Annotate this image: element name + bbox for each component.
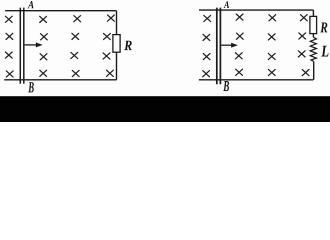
- velocity arrow (right diagram): [221, 43, 237, 47]
- field crosses left diagram: [5, 15, 114, 77]
- wire right branch below R: [116, 52, 118, 80]
- wire top rail (left diagram): [5, 10, 116, 12]
- inductor L value label: [321, 46, 328, 57]
- wire right branch above R: [312, 10, 314, 16]
- bottom black band: [0, 96, 330, 122]
- wire bottom rail (left diagram): [4, 79, 116, 81]
- node A label (right): [224, 1, 229, 8]
- wire top rail (right diagram): [199, 9, 313, 11]
- field crosses right diagram: [203, 14, 309, 77]
- wire between R and L: [312, 34, 314, 38]
- node B label (left): [28, 82, 34, 92]
- resistor R1 value label: [124, 41, 132, 50]
- velocity arrow (left diagram): [25, 43, 43, 47]
- sliding bar AB (double line, right): [217, 8, 221, 85]
- inductor L coil: [310, 37, 316, 61]
- wire right branch above R: [116, 11, 118, 35]
- wire below L: [313, 62, 315, 80]
- resistor R2 box: [310, 16, 317, 33]
- wire bottom rail (right diagram): [199, 79, 314, 81]
- resistor R2 value label: [320, 22, 327, 32]
- node A label (left): [28, 1, 34, 8]
- node B label (right): [223, 81, 229, 91]
- resistor R1 box: [113, 35, 120, 53]
- sliding bar AB (double line): [20, 8, 24, 84]
